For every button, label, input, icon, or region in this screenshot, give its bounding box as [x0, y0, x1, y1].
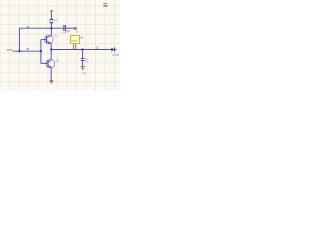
svg-text:D1N40: D1N40 [112, 53, 119, 57]
svg-text:K1: K1 [80, 35, 84, 39]
svg-text:Q2: Q2 [56, 58, 60, 62]
svg-text:GND: GND [81, 71, 86, 75]
svg-text:Q1: Q1 [54, 34, 58, 38]
svg-text:1u: 1u [85, 59, 89, 63]
svg-text:INPUT: INPUT [7, 49, 13, 52]
svg-text:2K: 2K [76, 30, 79, 33]
svg-text:R1: R1 [54, 18, 58, 22]
